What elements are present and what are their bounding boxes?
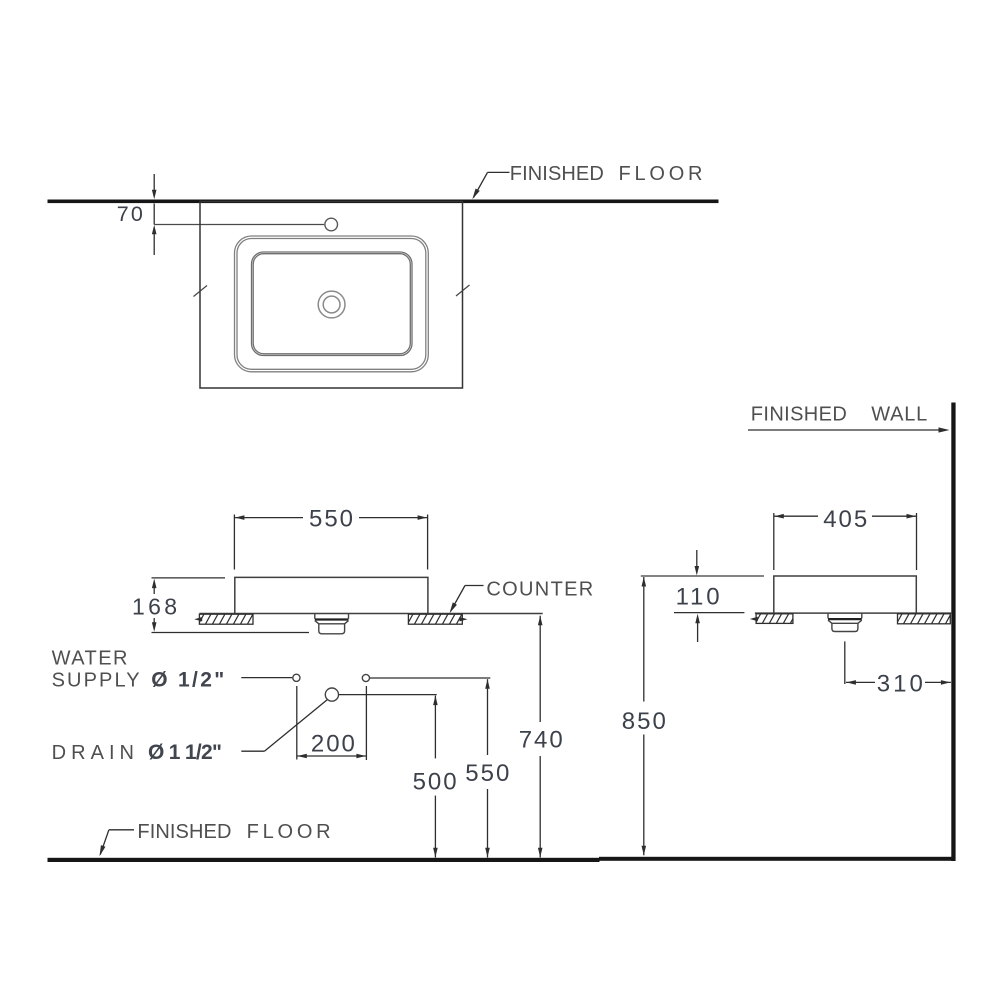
dimension 110 (side view height) [674, 550, 744, 642]
drain hole (front, circle) [325, 688, 338, 701]
leader FINISHED FLOOR (bottom label) [97, 830, 134, 857]
svg-text:850: 850 [622, 708, 666, 735]
dimension 168 (front view height) [132, 578, 309, 633]
sink body (side elevation) [774, 576, 917, 613]
svg-text:Ø 1/2": Ø 1/2" [151, 668, 224, 691]
svg-text:168: 168 [132, 594, 177, 620]
drain fitting (front elevation) [315, 614, 349, 634]
svg-text:SUPPLY: SUPPLY [52, 669, 140, 691]
drain extension line (side) [844, 641, 846, 684]
dimension 550 (front view width) [234, 506, 427, 570]
svg-text:740: 740 [519, 726, 563, 753]
dimension 405 (side view width) [774, 506, 917, 570]
text diameter 1/2 inch (bold) [151, 668, 224, 691]
finished floor line (front view, thick) [48, 858, 600, 862]
dimension 200 (supply spacing) [297, 686, 367, 760]
counter hatch left (front) [199, 614, 253, 624]
leader DRAIN diagonal [241, 700, 327, 751]
dimension 550 (vertical) [465, 679, 509, 857]
sink top extension line (left, for 850/110 dims) [641, 575, 764, 577]
break mark left edge (plan counter) [194, 286, 208, 297]
water supply hole right (front) [362, 674, 369, 681]
dimension 310 (drain to wall) [846, 670, 951, 697]
dimension 500 (vertical) [413, 696, 457, 858]
svg-text:FINISHED: FINISHED [510, 163, 604, 185]
text COUNTER [486, 579, 593, 601]
sink basin (plan view, inner rounded rect) [252, 252, 413, 356]
counter line (side elevation) [755, 612, 951, 614]
counter hatch right (front) [408, 614, 462, 624]
break mark right edge (plan counter) [456, 285, 470, 296]
svg-text:500: 500 [413, 768, 457, 795]
svg-text:405: 405 [823, 506, 867, 533]
counter hatch right (side) [898, 614, 951, 624]
svg-text:550: 550 [309, 506, 353, 533]
dimension 70 (plan, faucet offset) [117, 174, 157, 255]
svg-text:WATER: WATER [52, 648, 128, 670]
svg-text:110: 110 [676, 583, 720, 610]
svg-text:FINISHED: FINISHED [751, 404, 847, 426]
text DRAIN label [52, 742, 134, 764]
finished floor line (side view, thick) [599, 857, 954, 861]
svg-text:310: 310 [877, 670, 923, 697]
finished floor line (plan view, thick) [48, 200, 719, 204]
sink outer rim (plan view, double rounded rect) [235, 236, 429, 372]
drain-to-500dim line [339, 694, 437, 696]
water supply leader line [241, 677, 292, 679]
drain hole (plan view, double circle) [318, 291, 345, 318]
counter line (front elevation) [199, 613, 542, 615]
text FINISHED FLOOR (bottom) [137, 821, 330, 843]
counter rectangle (plan view) [200, 202, 463, 389]
text diameter 1 1/2 inch (bold) [148, 741, 222, 764]
text FINISHED WALL [751, 404, 927, 426]
finished wall line (thick vertical) [951, 403, 955, 862]
svg-text:FINISHED: FINISHED [137, 821, 231, 843]
svg-text:Ø 1 1/2": Ø 1 1/2" [148, 741, 222, 764]
sink body (front elevation) [235, 577, 428, 613]
leader FINISHED FLOOR (top label) [470, 172, 509, 200]
leader arrow FINISHED WALL [748, 427, 950, 432]
counter hatch left (side) [756, 614, 793, 624]
faucet hole circle (plan) [325, 218, 338, 231]
svg-text:200: 200 [311, 730, 355, 757]
dimension 740 (vertical) [519, 616, 563, 858]
water supply hole left (front) [293, 674, 300, 681]
faucet hole centerline (plan) [154, 224, 324, 226]
drain fitting (side elevation) [828, 613, 862, 631]
leader COUNTER [447, 586, 483, 615]
svg-text:COUNTER: COUNTER [486, 579, 593, 601]
counter break arrow right (front) [460, 617, 468, 621]
text WATER SUPPLY labels [52, 648, 128, 670]
dimension 850 (vertical, wall side) [622, 577, 666, 855]
text FINISHED FLOOR (top) [510, 163, 703, 185]
counter break arrow left (side) [750, 617, 758, 621]
svg-text:DRAIN: DRAIN [52, 742, 134, 764]
svg-text:550: 550 [465, 760, 509, 787]
supply-to-550dim line [370, 677, 490, 679]
svg-text:WALL: WALL [871, 404, 927, 426]
counter break arrow left (front) [194, 617, 202, 621]
